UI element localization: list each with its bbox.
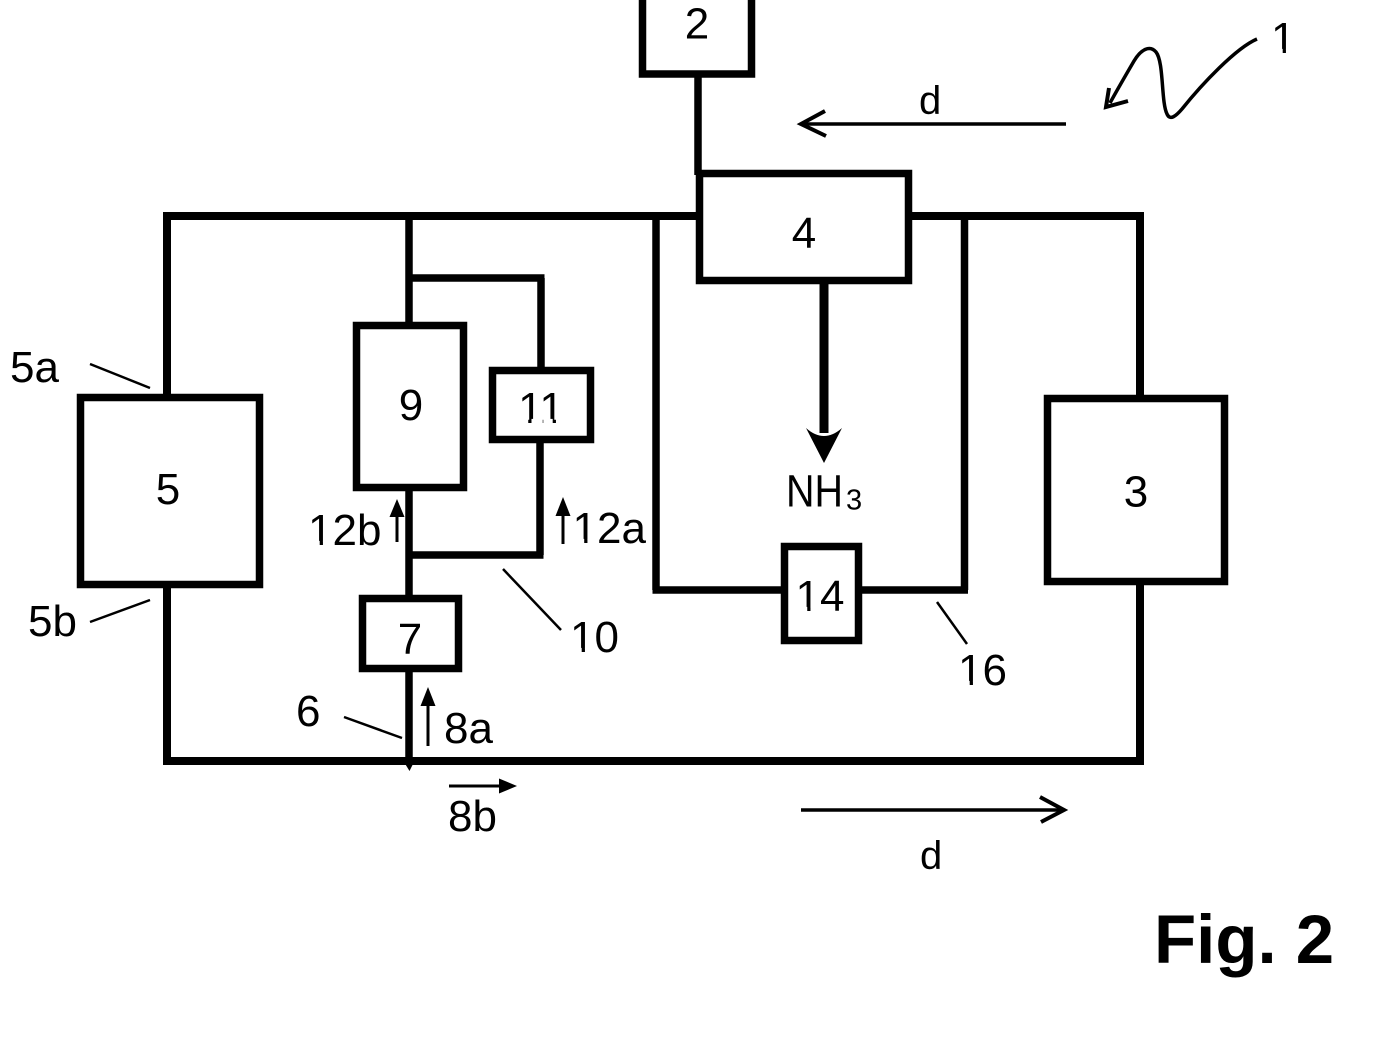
svg-text:12b: 12b	[308, 506, 381, 555]
leader line 5a	[90, 364, 150, 388]
wire main loop frame	[167, 216, 1140, 761]
svg-text:6: 6	[296, 687, 320, 736]
NH3 injection arrow	[820, 284, 829, 433]
block 2	[643, 0, 752, 74]
block 4	[700, 174, 909, 281]
squiggle reference arrow 1	[1110, 39, 1257, 117]
svg-text:d: d	[919, 79, 941, 123]
wire down to box 11 top	[537, 278, 545, 370]
svg-text:8a: 8a	[444, 704, 493, 753]
svg-text:d: d	[920, 834, 942, 878]
leader line 5b	[90, 600, 150, 622]
svg-text:10: 10	[570, 613, 619, 662]
svg-text:3: 3	[846, 485, 862, 517]
wire from box 2 to box 4	[694, 70, 702, 175]
svg-text:8b: 8b	[448, 792, 497, 841]
block 7	[363, 599, 459, 669]
svg-text:NH: NH	[786, 466, 843, 517]
block 11	[493, 371, 591, 440]
svg-text:14: 14	[796, 572, 845, 621]
svg-text:7: 7	[398, 615, 422, 664]
svg-text:5: 5	[156, 465, 180, 514]
leader line 6	[344, 717, 402, 738]
svg-text:5a: 5a	[10, 343, 59, 392]
wire tip below bottom line	[404, 762, 414, 771]
wire inner loop bottom right horizontal	[858, 586, 968, 594]
svg-text:9: 9	[399, 381, 423, 430]
svg-text:4: 4	[792, 209, 816, 258]
wire inner loop left vertical (node to line 16)	[652, 214, 660, 590]
svg-text:1: 1	[1271, 14, 1295, 63]
block 3	[1048, 399, 1225, 582]
arrow 8b	[449, 785, 500, 788]
block 14	[785, 547, 859, 641]
svg-text:16: 16	[958, 646, 1007, 695]
arrow 8a	[427, 704, 430, 746]
svg-text:Fig. 2: Fig. 2	[1154, 901, 1334, 978]
block 9	[357, 326, 464, 488]
block 5	[81, 398, 260, 585]
arrow d bottom (pointing right)	[801, 808, 1062, 812]
wire from box 7 bottom through bottom frame line	[405, 669, 413, 764]
arrow 12a	[562, 515, 565, 544]
leader line 10	[503, 569, 561, 630]
svg-text:11: 11	[518, 384, 564, 433]
svg-text:5b: 5b	[28, 597, 77, 646]
arrow 12b	[396, 515, 399, 542]
wire inner loop bottom left horizontal	[653, 586, 789, 594]
wire inner loop right vertical	[961, 214, 969, 590]
svg-text:3: 3	[1124, 468, 1148, 517]
wire horizontal joining line 10	[409, 551, 544, 559]
wire from top line down to box 9	[405, 214, 413, 326]
wire branch horizontal to line of box 11	[406, 274, 545, 282]
leader line 16	[937, 602, 967, 644]
svg-text:2: 2	[685, 0, 709, 49]
arrow d top (pointing left)	[803, 122, 1066, 126]
wire from box 9 bottom to box 7 top	[405, 488, 413, 598]
svg-text:12a: 12a	[573, 504, 647, 553]
wire from box 11 bottom down	[536, 440, 544, 555]
